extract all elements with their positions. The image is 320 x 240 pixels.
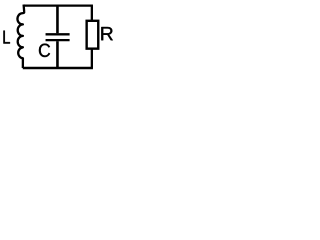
background	[0, 0, 120, 73]
label C	[39, 44, 50, 57]
capacitor C1 top plate	[46, 33, 70, 35]
resistor R1 bottom lead	[91, 49, 93, 69]
label R	[101, 27, 113, 40]
capacitor C1 top lead	[56, 6, 59, 34]
label L	[3, 31, 10, 44]
wire bottom	[23, 67, 93, 69]
capacitor C1 bottom plate	[46, 39, 70, 41]
wire top	[23, 4, 93, 6]
resistor R1 top lead	[91, 6, 93, 21]
capacitor C1 bottom lead	[56, 41, 59, 68]
resistor R1 box	[87, 21, 99, 49]
inductor L1	[17, 5, 24, 69]
